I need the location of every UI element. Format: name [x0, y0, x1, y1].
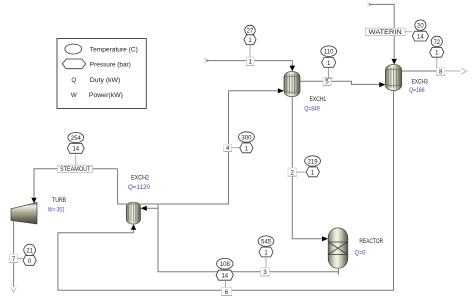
arrow into reactor left [322, 236, 328, 241]
arrow into EXCH1 left [278, 88, 284, 93]
svg-text:27: 27 [247, 29, 254, 35]
stream label STEAMOUT [58, 165, 93, 173]
svg-text:EXCH1: EXCH1 [310, 96, 327, 103]
wire stream 3 : reactor bottom to EXCH2 right [147, 204, 338, 275]
svg-text:Temperature (C): Temperature (C) [90, 46, 138, 53]
svg-text:110: 110 [324, 50, 334, 56]
heater EXCH3 [385, 65, 401, 91]
callout 110/1 [325, 67, 333, 78]
svg-text:108: 108 [220, 262, 231, 268]
svg-text:14: 14 [72, 147, 79, 153]
svg-text:Power(kW): Power(kW) [89, 92, 123, 99]
wire stream 6 : EXCH3 bottom to EXCH2 bottom [58, 91, 394, 291]
wire stream 7 : turbine outlet down [13, 220, 15, 287]
stream label 3 [260, 268, 269, 277]
stream label 5 [323, 77, 331, 85]
svg-text:Pressure (bar): Pressure (bar) [90, 61, 131, 68]
arrow into EXCH1 top [290, 66, 296, 72]
legend pressure hexagon [62, 59, 85, 69]
callout 72/1 [436, 58, 438, 68]
stream label 7 [9, 254, 18, 263]
svg-text:1: 1 [248, 59, 252, 66]
callout 219/1 [296, 171, 307, 173]
wire stream 8 : EXCH3 right out [402, 70, 445, 72]
svg-text:8: 8 [439, 69, 443, 76]
callout 27/1 [249, 45, 251, 58]
svg-text:Q=166: Q=166 [409, 87, 425, 94]
svg-text:Q: Q [71, 77, 76, 84]
svg-text:EXCH3: EXCH3 [412, 78, 429, 85]
callout 300/1 [232, 147, 241, 149]
svg-text:545: 545 [261, 240, 272, 246]
stream label 6 [221, 287, 232, 296]
svg-text:3: 3 [263, 269, 267, 276]
callout 21/0 [18, 258, 23, 260]
svg-text:TURB: TURB [52, 197, 66, 204]
svg-text:300: 300 [241, 135, 252, 141]
arrow into EXCH2 bottom [131, 224, 136, 230]
svg-text:Q=0: Q=0 [355, 250, 366, 257]
svg-text:EXCH2: EXCH2 [131, 174, 149, 181]
svg-text:21: 21 [26, 248, 33, 254]
heater EXCH2 [126, 202, 140, 224]
svg-text:6: 6 [225, 289, 229, 296]
stream label 4 [223, 144, 232, 152]
svg-text:REACTOR: REACTOR [359, 238, 383, 245]
svg-text:Duty (kW): Duty (kW) [90, 77, 121, 84]
stream label 2 [288, 168, 297, 177]
turbine TURB [11, 203, 37, 225]
svg-text:254: 254 [71, 136, 82, 142]
svg-text:WATERIN: WATERIN [369, 29, 402, 36]
wire WATERIN feed [367, 2, 371, 6]
svg-text:5: 5 [325, 79, 329, 86]
stream label 8 [436, 67, 445, 75]
svg-text:Q=849: Q=849 [304, 106, 320, 113]
callout 545/1 [265, 257, 267, 267]
wire stream 4 : EXCH2 top to EXCH1 left [118, 91, 278, 204]
wire stream 2 : EXCH1 bottom to reactor [292, 97, 322, 239]
wire stream 5 : EXCH1 right to EXCH3 left [300, 81, 379, 84]
callout 108/14 [225, 281, 227, 287]
svg-text:4: 4 [226, 145, 230, 152]
heater EXCH1 [284, 72, 300, 97]
svg-text:W: W [71, 92, 77, 99]
stream 7 product marker [11, 287, 16, 292]
svg-text:7: 7 [12, 256, 16, 263]
svg-text:Q=1120: Q=1120 [128, 184, 150, 191]
callout 254/14 [75, 154, 77, 165]
svg-text:14: 14 [417, 35, 424, 41]
svg-text:72: 72 [433, 40, 440, 46]
callout 20/14 [405, 31, 412, 33]
legend box [57, 39, 146, 109]
svg-text:W=-351: W=-351 [48, 206, 65, 213]
reactor vessel [328, 228, 348, 268]
stream label 1 [246, 57, 254, 66]
wire stream1 feed marker [205, 58, 209, 62]
svg-text:STEAMOUT: STEAMOUT [60, 166, 91, 173]
arrow into EXCH2 right [141, 206, 147, 211]
svg-text:20: 20 [417, 24, 424, 30]
svg-text:219: 219 [308, 159, 319, 165]
stream label WATERIN [365, 28, 405, 36]
arrow into turbine top [31, 198, 36, 204]
legend temperature ellipse [65, 44, 82, 54]
svg-text:2: 2 [290, 170, 294, 177]
wire stream 1 horizontal [206, 61, 292, 66]
arrow into EXCH3 left [379, 82, 385, 87]
wire STEAMOUT to turbine [34, 169, 118, 198]
arrow into EXCH3 top [391, 59, 397, 65]
svg-text:14: 14 [221, 274, 228, 280]
stream 8 product marker [461, 68, 467, 74]
